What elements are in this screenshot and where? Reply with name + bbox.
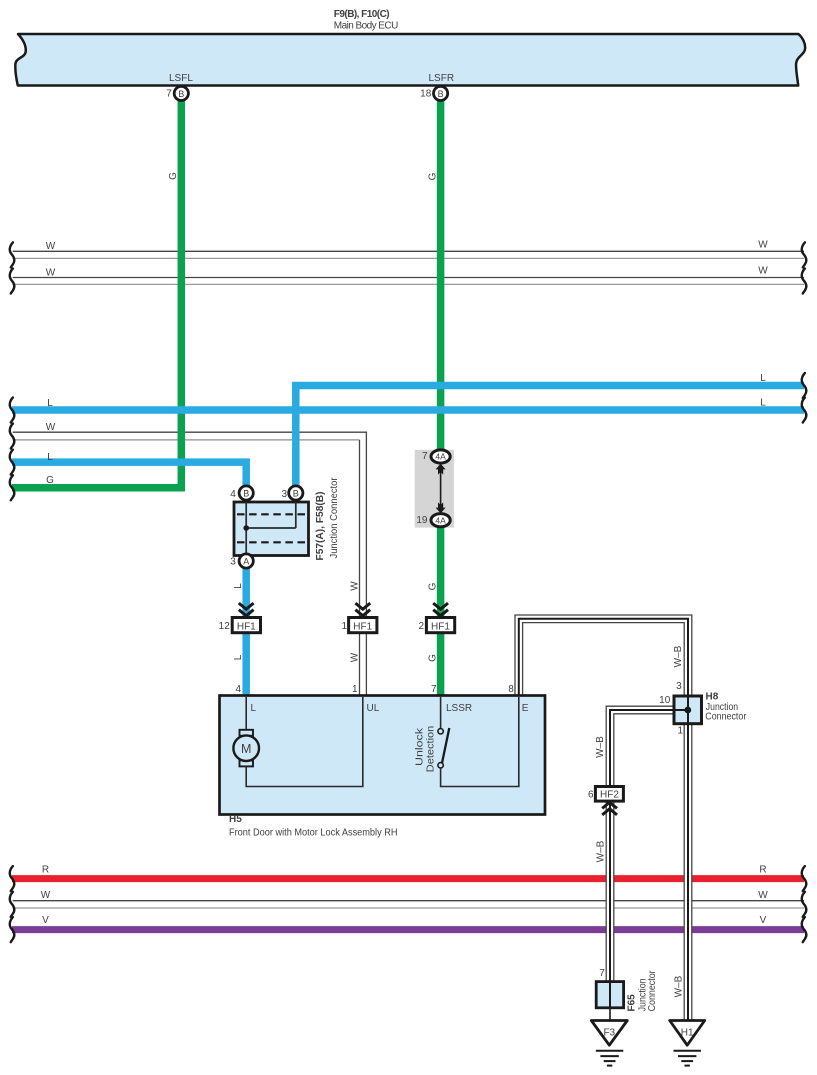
svg-text:19: 19 — [416, 515, 428, 526]
break squiggle W bus bottom right — [802, 892, 806, 917]
wire L from junction connector pin A to H5 pin 4 — [242, 568, 250, 696]
connector arrow down — [436, 502, 446, 513]
svg-text:B: B — [293, 489, 299, 499]
H8 junction connector box — [674, 696, 702, 724]
wire W-B from H8 pin 10 left and down to HF2 — [606, 706, 674, 787]
svg-text:Main Body ECU: Main Body ECU — [334, 21, 399, 32]
ground F3 hatches — [596, 1051, 623, 1066]
HF1 relay block box (W wire) pin 1 — [349, 618, 377, 633]
svg-text:Connector: Connector — [647, 970, 658, 1012]
pin 18 circle B at LSFR — [434, 86, 448, 100]
svg-text:Front Door with Motor Lock Ass: Front Door with Motor Lock Assembly RH — [229, 828, 398, 839]
svg-text:HF2: HF2 — [600, 790, 619, 801]
svg-text:6: 6 — [588, 789, 594, 800]
svg-text:L: L — [251, 703, 257, 714]
svg-text:3: 3 — [676, 681, 682, 692]
svg-text:W: W — [758, 240, 768, 251]
svg-text:3: 3 — [230, 557, 236, 568]
svg-text:7: 7 — [422, 451, 428, 462]
svg-text:H5: H5 — [229, 814, 242, 825]
svg-text:LSFL: LSFL — [169, 73, 193, 84]
svg-text:A: A — [243, 557, 249, 567]
break squiggle V bus right — [802, 917, 806, 942]
chevron above HF1 (L wire) — [239, 603, 254, 616]
svg-text:L: L — [47, 398, 53, 409]
svg-text:G: G — [427, 172, 438, 180]
break squiggle W bus bottom left — [10, 892, 14, 917]
pin 7 circle B at LSFL — [174, 86, 188, 100]
break squiggle L bus full right — [802, 398, 806, 423]
wire from F65 to ground F3 — [609, 1007, 611, 1021]
svg-text:Connector: Connector — [705, 712, 747, 723]
connector 4A pin 7 ellipse — [431, 450, 450, 463]
svg-text:R: R — [42, 865, 49, 876]
wire L bus full width — [12, 406, 804, 414]
svg-text:1: 1 — [341, 621, 347, 632]
svg-text:W: W — [349, 581, 360, 591]
svg-text:4: 4 — [230, 489, 236, 500]
HF1 relay block box (G wire) pin 2 — [426, 618, 454, 633]
pin 3 circle B at junction connector — [289, 486, 303, 500]
ground H1 triangle — [670, 1021, 705, 1046]
connector arrow up — [436, 464, 446, 475]
pin 3 circle A at junction connector bottom — [239, 554, 253, 568]
wire W bus 2 horizontal — [13, 278, 804, 285]
svg-text:B: B — [438, 89, 444, 99]
svg-text:8: 8 — [508, 684, 514, 695]
connector shield 4A gray background — [415, 450, 454, 528]
ground F3 triangle — [591, 1021, 627, 1046]
svg-text:W: W — [46, 267, 56, 278]
svg-text:L: L — [760, 373, 766, 384]
svg-text:G: G — [427, 582, 438, 590]
svg-text:F57(A), F58(B): F57(A), F58(B) — [315, 492, 326, 561]
svg-text:4A: 4A — [435, 452, 446, 462]
svg-text:Detection: Detection — [425, 726, 436, 773]
svg-text:4: 4 — [235, 684, 241, 695]
break squiggle W bus mid left — [10, 424, 14, 449]
svg-text:W–B: W–B — [674, 975, 685, 997]
wire V bus — [12, 926, 804, 933]
connector link line — [440, 471, 442, 506]
svg-text:Unlock: Unlock — [414, 727, 425, 766]
wire G from LSFR pin 18 down to 4A connector — [437, 100, 445, 452]
svg-text:18: 18 — [420, 89, 432, 100]
svg-text:M: M — [241, 742, 251, 756]
svg-text:L: L — [47, 452, 53, 463]
svg-text:L: L — [760, 398, 766, 409]
pin 4 circle B at junction connector — [239, 486, 253, 500]
wire W bus to junction, turning down to HF1 and H5 pin 1 — [13, 432, 367, 696]
wire W-B from H5 pin 8 up over to H8 pin 3 — [515, 615, 692, 696]
wire G from 4A connector down to H5 pin 7 — [437, 524, 445, 696]
break squiggle L bus full left — [10, 398, 14, 423]
break squiggle W bus2 left — [10, 269, 14, 294]
wire L bus upper partial, from vertical at x296 to right edge — [296, 386, 804, 488]
wire W bus 1 horizontal — [13, 251, 804, 258]
svg-text:W: W — [46, 422, 56, 433]
break squiggle R bus left — [10, 866, 14, 891]
svg-text:B: B — [178, 89, 184, 99]
ground H1 hatches — [674, 1051, 701, 1066]
svg-text:L: L — [233, 583, 244, 589]
svg-text:W–B: W–B — [595, 736, 606, 758]
wire G from LSFL pin 7 down and left to G bus — [12, 100, 181, 488]
wire R bus — [12, 875, 804, 882]
svg-text:W: W — [758, 890, 768, 901]
break squiggle R bus right — [802, 866, 806, 891]
svg-text:2: 2 — [418, 621, 424, 632]
HF1 relay block box (L wire) pin 12 — [232, 618, 260, 633]
svg-text:W–B: W–B — [596, 840, 607, 862]
break squiggle G bus left — [10, 475, 14, 500]
unlock detection switch inside H5 — [438, 697, 519, 787]
motor M inside H5 — [233, 697, 362, 787]
wire W-B from HF2 down to F65 junction connector — [606, 801, 614, 982]
wire W-B from H8 pin 1 down to ground H1 — [684, 724, 692, 1021]
svg-text:L: L — [233, 654, 244, 660]
svg-text:W: W — [758, 266, 768, 277]
svg-text:W: W — [349, 652, 360, 662]
chevron above HF1 (G wire) — [433, 603, 448, 616]
svg-text:W–B: W–B — [673, 645, 684, 667]
break squiggle W bus1 left — [10, 242, 14, 267]
svg-text:7: 7 — [431, 684, 437, 695]
svg-text:UL: UL — [367, 703, 380, 714]
svg-text:7: 7 — [166, 89, 172, 100]
svg-text:E: E — [522, 703, 529, 714]
svg-text:V: V — [42, 915, 49, 926]
break squiggle L bus upper right — [802, 373, 806, 398]
svg-text:12: 12 — [219, 621, 231, 632]
svg-text:4A: 4A — [435, 515, 446, 525]
svg-text:F9(B), F10(C): F9(B), F10(C) — [334, 9, 390, 20]
svg-text:HF1: HF1 — [237, 622, 256, 633]
break squiggle L bus lower left — [10, 450, 14, 475]
svg-text:LSSR: LSSR — [446, 703, 472, 714]
H5 Front Door with Motor Lock Assembly RH box — [220, 696, 546, 815]
svg-text:W: W — [41, 890, 51, 901]
svg-text:HF1: HF1 — [431, 622, 450, 633]
svg-text:1: 1 — [678, 726, 684, 737]
connector 4A pin 19 ellipse — [431, 514, 450, 527]
F65 junction connector box — [596, 982, 623, 1008]
HF2 relay block box pin 6 — [595, 787, 623, 802]
Main Body ECU band F9(B),F10(C) — [15, 34, 805, 86]
svg-text:R: R — [759, 865, 766, 876]
svg-text:F65: F65 — [627, 994, 638, 1012]
svg-text:LSFR: LSFR — [429, 73, 455, 84]
svg-text:1: 1 — [352, 684, 358, 695]
chevron above HF1 (W wire) — [355, 603, 370, 616]
break squiggle W bus2 right — [802, 269, 806, 294]
break squiggle W bus1 right — [802, 242, 806, 267]
svg-text:B: B — [243, 489, 249, 499]
svg-text:G: G — [427, 654, 438, 662]
svg-text:7: 7 — [599, 968, 605, 979]
svg-text:10: 10 — [659, 695, 671, 706]
wire L bus lower, turning down to junction connector pin 4 — [12, 462, 246, 486]
svg-text:3: 3 — [281, 489, 287, 500]
junction connector F57(A),F58(B) box — [234, 502, 309, 556]
chevron below HF2 pointing up — [602, 802, 617, 815]
svg-text:H1: H1 — [681, 1027, 694, 1038]
svg-text:HF1: HF1 — [353, 622, 372, 633]
svg-text:W: W — [46, 241, 56, 252]
break squiggle V bus left — [10, 917, 14, 942]
svg-text:G: G — [168, 172, 179, 180]
svg-text:Junction Connector: Junction Connector — [329, 477, 340, 559]
svg-text:G: G — [46, 475, 54, 486]
svg-text:H8: H8 — [706, 691, 719, 702]
svg-text:V: V — [760, 915, 767, 926]
svg-text:F3: F3 — [603, 1027, 615, 1038]
wire W bus bottom — [13, 901, 804, 908]
